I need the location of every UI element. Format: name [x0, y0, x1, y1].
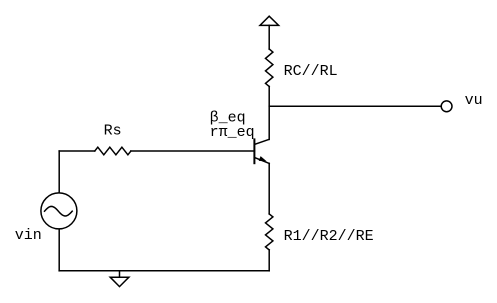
- svg-text:R1//R2//RE: R1//R2//RE: [284, 228, 374, 245]
- transistor Q1 collector lead: [254, 139, 269, 144]
- wire left down to vin: [58, 151, 60, 192]
- resistor Rs: [95, 147, 131, 155]
- transistor Q1 base bar: [253, 139, 255, 163]
- wire Rs to base: [131, 150, 255, 152]
- transistor Q1 emitter lead: [254, 158, 269, 164]
- svg-text:RC//RL: RC//RL: [284, 63, 338, 80]
- svg-text:vu: vu: [465, 92, 483, 109]
- svg-text:rπ_eq: rπ_eq: [210, 124, 255, 141]
- wire bottom rail: [59, 270, 269, 272]
- resistor RC//RL: [266, 49, 273, 87]
- wire R1//R2//RE to bottom rail: [268, 250, 270, 271]
- svg-text:Rs: Rs: [104, 123, 122, 140]
- source vin sine: [45, 206, 73, 216]
- wire vcc to RC//RL: [268, 25, 270, 49]
- ground stub: [119, 271, 121, 277]
- resistor R1//R2//RE: [266, 214, 273, 250]
- source vin circle: [41, 193, 77, 229]
- terminal vu: [441, 101, 452, 112]
- wire node out to vu: [269, 105, 441, 107]
- ground symbol: [110, 277, 129, 286]
- transistor Q1 emitter arrow: [259, 156, 267, 161]
- wire base: [59, 150, 95, 152]
- wire vin down: [58, 230, 60, 271]
- svg-text:vin: vin: [15, 227, 42, 244]
- vcc power symbol: [260, 16, 279, 25]
- wire emitter down: [268, 163, 270, 214]
- wire RC//RL to collector: [268, 87, 270, 140]
